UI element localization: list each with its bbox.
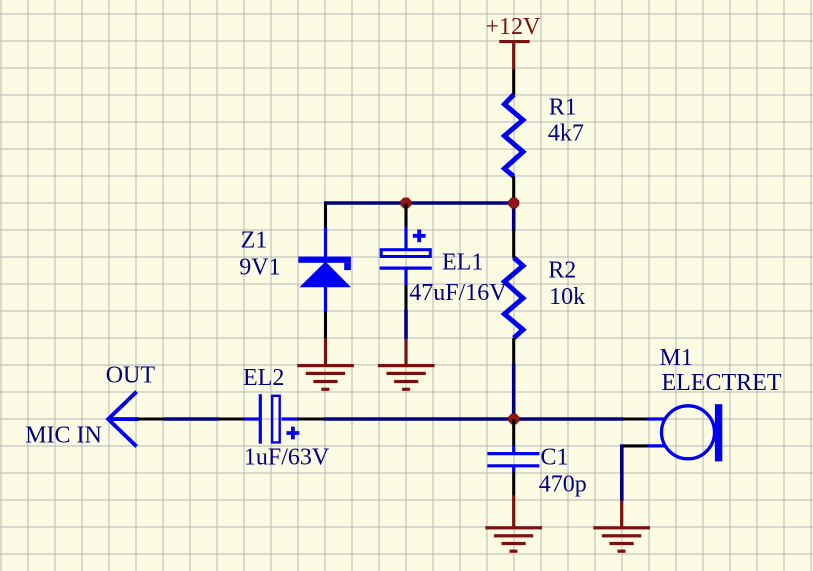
- wire: top horizontal Z1 to node A: [324, 201, 514, 205]
- ground G2 stub (EL1): [404, 339, 407, 366]
- ground G4 stub (M1): [620, 501, 623, 529]
- ground G1 stub (Z1): [324, 338, 327, 366]
- resistor R2: [504, 258, 523, 339]
- resistor R1: [504, 95, 523, 177]
- zener Z1 cathode wing: [344, 263, 351, 270]
- ground G4 bars: [593, 526, 650, 553]
- capacitor EL1 plus sign: [413, 229, 426, 242]
- wire: +12V to R1 pin 1: [512, 70, 515, 96]
- capacitor C1 top plate: [487, 452, 539, 455]
- svg-text:10k: 10k: [549, 284, 585, 310]
- wire: EL1 to ground G2: [404, 310, 408, 339]
- wire: node B to M1: [514, 417, 624, 421]
- capacitor EL1 pin 1 (black): [404, 204, 407, 228]
- svg-text:R2: R2: [548, 257, 576, 283]
- svg-text:C1: C1: [541, 444, 569, 470]
- capacitor C1 bottom plate: [487, 464, 539, 467]
- capacitor EL1 top lead (blue): [404, 227, 407, 250]
- ground G2 bars: [378, 364, 435, 391]
- microphone M1 pin 1 lead (blue): [647, 417, 666, 420]
- capacitor C1 pin 2 (black): [512, 472, 515, 496]
- wire: EL2 to node B: [324, 417, 514, 421]
- port OUT pin (black): [138, 417, 165, 420]
- power port +12V stub: [512, 42, 515, 71]
- svg-text:+12V: +12V: [486, 14, 542, 40]
- power port +12V bar symbol: [499, 40, 529, 43]
- svg-text:470p: 470p: [539, 471, 587, 497]
- svg-text:OUT: OUT: [106, 363, 156, 389]
- zener Z1 pin 1 (top, black): [324, 204, 327, 228]
- svg-text:R1: R1: [549, 94, 577, 120]
- ground G3 stub (C1): [512, 495, 515, 528]
- svg-text:ELECTRET: ELECTRET: [662, 370, 782, 396]
- junction node A (R1/R2/top wire): [508, 198, 519, 209]
- capacitor C1 top lead (blue): [512, 446, 515, 454]
- capacitor C1 bottom lead (blue): [512, 466, 515, 473]
- wire: M1 to ground G4: [620, 444, 624, 501]
- zener Z1 pin 2 (black): [324, 311, 327, 339]
- capacitor EL2 pin 1 (black): [219, 417, 244, 420]
- capacitor EL1 bottom lead (blue): [404, 268, 407, 286]
- capacitor EL2 left lead (blue): [244, 417, 260, 420]
- microphone M1 pin 1 (black): [622, 417, 647, 420]
- svg-text:MIC IN: MIC IN: [25, 422, 102, 448]
- R2 pin 2: [512, 338, 515, 365]
- microphone M1 body circle: [662, 406, 715, 459]
- wire: node A down to R2: [512, 203, 516, 231]
- svg-text:4k7: 4k7: [548, 120, 584, 146]
- svg-text:Z1: Z1: [241, 228, 268, 254]
- capacitor EL2 pin (black): [298, 417, 325, 420]
- capacitor EL2 right plate (hollow): [272, 396, 280, 443]
- capacitor C1 pin 1 (black): [512, 419, 515, 446]
- ground G1 bars: [297, 364, 354, 391]
- svg-text:EL1: EL1: [442, 250, 483, 276]
- port OUT / MIC IN arrow: [108, 392, 138, 447]
- zener Z1 top lead (blue): [324, 227, 327, 257]
- svg-text:M1: M1: [660, 345, 693, 371]
- capacitor EL2 left plate: [259, 394, 262, 444]
- svg-text:47uF/16V: 47uF/16V: [409, 280, 507, 306]
- capacitor EL1 top plate (hollow): [381, 250, 430, 257]
- junction node B: [508, 414, 519, 425]
- capacitor EL2 plus sign: [287, 427, 300, 440]
- capacitor EL1 bottom plate: [380, 267, 432, 270]
- R2 pin 1: [512, 230, 515, 259]
- wire: R2 to node B: [512, 364, 516, 420]
- zener Z1 cathode bar: [298, 257, 351, 263]
- wire: R1 pin 2 to node A: [512, 176, 515, 203]
- microphone M1 pin 2 (black): [620, 444, 648, 447]
- ground G3 bars: [485, 526, 542, 553]
- svg-text:EL2: EL2: [243, 365, 284, 391]
- microphone M1 pin 2 lead (blue): [647, 444, 666, 447]
- capacitor EL2 right lead (blue): [282, 417, 299, 420]
- microphone M1 diaphragm bar: [715, 404, 722, 461]
- wire: arrow to EL2: [164, 417, 219, 421]
- svg-text:1uF/63V: 1uF/63V: [244, 445, 330, 471]
- svg-text:9V1: 9V1: [239, 255, 280, 281]
- capacitor EL1 pin 2 (black): [404, 285, 407, 310]
- zener Z1 bottom lead (blue): [324, 286, 327, 312]
- junction node EL1/top wire: [400, 198, 411, 209]
- zener Z1 anode triangle: [299, 262, 351, 288]
